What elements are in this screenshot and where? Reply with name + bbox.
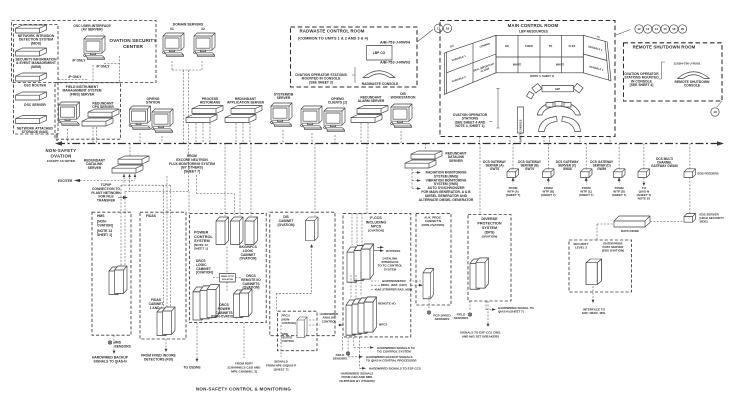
console remote shutdown xyxy=(678,72,710,79)
node datalink drop arrows xyxy=(123,174,137,177)
svg-text:AUX. PROC.CABINET-N(NON-OVATIO: AUX. PROC.CABINET-N(NON-OVATION) xyxy=(422,216,445,227)
box aux proc cabinet xyxy=(416,213,451,305)
server data diode xyxy=(614,216,650,227)
wire leader to circle 12 xyxy=(616,30,631,36)
server CPS stack xyxy=(82,109,119,126)
monitor FIMS xyxy=(58,102,79,125)
wire RSR bracket xyxy=(659,62,666,79)
sensor DPS field xyxy=(468,313,471,316)
wire aux sensors xyxy=(428,296,430,309)
sensor RCP speed xyxy=(427,311,430,314)
node exciter arrow xyxy=(74,179,80,182)
svg-text:CPM/MIN: CPM/MIN xyxy=(479,42,490,48)
node circle 18 xyxy=(443,24,451,32)
console radwaste xyxy=(363,71,395,78)
svg-text:SIGNALSFROM NPE-S/QIAS-P[SHEET: SIGNALSFROM NPE-S/QIAS-P[SHEET 7] xyxy=(266,360,296,372)
svg-text:TCP/IPCONNECTION TOPLANT NETWO: TCP/IPCONNECTION TOPLANT NETWORKFOR FILE… xyxy=(91,183,121,203)
svg-text:P-CCSINCLUDINGNPCS[OVATION]: P-CCSINCLUDINGNPCS[OVATION] xyxy=(366,216,387,233)
wire PCS left feeder xyxy=(188,192,190,214)
svg-text:FIBER OPTICISOLATION: FIBER OPTICISOLATION xyxy=(221,276,235,281)
panel fiber optic isolation xyxy=(219,274,235,283)
svg-text:FIXED: FIXED xyxy=(525,44,533,48)
console LBP xyxy=(527,83,584,99)
wire gateway A xyxy=(512,144,514,185)
gateway cube D xyxy=(614,169,626,178)
svg-text:HARDWIRED SIGNALS TOT/G CONTRO: HARDWIRED SIGNALS TOT/G CONTROL SYSTEM xyxy=(377,346,415,354)
console MCR bottom left xyxy=(539,117,558,132)
svg-text:NETWORK ATTACHEDSTORAGE (NAS): NETWORK ATTACHEDSTORAGE (NAS) xyxy=(17,127,54,135)
server datalink left stack xyxy=(112,156,149,173)
monitor op-eng station 1 xyxy=(129,106,150,129)
svg-text:DISCABINET(OVATION): DISCABINET(OVATION) xyxy=(278,215,295,227)
gateway cube EDS server xyxy=(684,214,696,223)
svg-text:PROCESSHISTORIANS: PROCESSHISTORIANS xyxy=(200,97,221,105)
panel safety console xyxy=(518,107,524,142)
wire FIMS drops xyxy=(68,127,97,143)
svg-text:POWERCONTROLSYSTEM[NOTE 12SHEE: POWERCONTROLSYSTEM[NOTE 12SHEET 1] xyxy=(194,231,213,251)
wire DIS feeder from trunk xyxy=(314,144,316,217)
svg-text:DSC SERVER: DSC SERVER xyxy=(24,103,46,107)
wire leader to circle 19 xyxy=(717,101,723,108)
svg-text:#1: #1 xyxy=(170,27,174,31)
svg-text:DATA DIODE: DATA DIODE xyxy=(621,229,639,233)
wire PCS to CEDM xyxy=(196,323,198,360)
svg-text:RADIATION MONITORINGSYSTEM (RM: RADIATION MONITORINGSYSTEM (RMS)VIBRATIO… xyxy=(419,171,474,202)
server process historians xyxy=(186,106,223,123)
box FIMS xyxy=(55,83,121,140)
wire RCPSSSS arrows xyxy=(374,247,382,250)
svg-text:EXCEPT AS NOTED: EXCEPT AS NOTED xyxy=(47,159,76,163)
sensor field sensors PCCS xyxy=(346,352,349,355)
server DSC server xyxy=(16,92,47,100)
svg-text:VARIABLE 2: VARIABLE 2 xyxy=(451,76,466,84)
svg-text:MAIN CONTROL ROOM: MAIN CONTROL ROOM xyxy=(508,23,559,28)
wire system db drop xyxy=(282,130,284,143)
wire IP only horizontal xyxy=(58,79,88,81)
svg-text:DCS GATEWAYSERVER (A)GW78: DCS GATEWAYSERVER (A)GW78 xyxy=(483,160,507,171)
svg-text:DIVERSEPROTECTIONSYSTEM(DPS)(O: DIVERSEPROTECTIONSYSTEM(DPS)(OVATION) xyxy=(477,217,502,239)
node circle 13 xyxy=(644,25,652,33)
svg-text:OVATION OPERATORSTATIONS MOUNT: OVATION OPERATORSTATIONS MOUNTEDIN CONSO… xyxy=(624,72,659,87)
monitor domain server 2 xyxy=(194,33,215,56)
box DIS cabinet xyxy=(270,212,335,336)
sensor HMS xyxy=(108,341,111,344)
wire DIS workstation drop xyxy=(400,131,402,143)
svg-text:RADWASTE CONTROL ROOM: RADWASTE CONTROL ROOM xyxy=(300,29,365,34)
svg-text:RCP SPEEDSENSORS: RCP SPEEDSENSORS xyxy=(433,314,451,322)
cabinet PCS logic 2 xyxy=(231,217,244,245)
svg-text:FIELD INSTRUMENTMANAGEMENT SYS: FIELD INSTRUMENTMANAGEMENT SYSTEM(FIMS) … xyxy=(62,85,101,96)
wire exciter line xyxy=(80,180,135,182)
svg-text:INTERFACE TOEOF, NERC, MSL: INTERFACE TOEOF, NERC, MSL xyxy=(582,308,606,316)
svg-text:FROM RSPT[CHANNELS C&D ANDMPE: FROM RSPT[CHANNELS C&D ANDMPE CHANNEL 3] xyxy=(228,362,262,374)
svg-text:18: 18 xyxy=(672,27,676,31)
svg-text:VARIABLE 4: VARIABLE 4 xyxy=(589,65,605,72)
svg-text:REDUNDANTAPPLICATION SERVER: REDUNDANTAPPLICATION SERVER xyxy=(227,97,265,105)
node circle 12 xyxy=(635,25,643,33)
wire leader to circle 17 xyxy=(417,30,433,43)
wire RSPT drop xyxy=(243,323,245,358)
wire PPCU to PCCS xyxy=(309,320,343,325)
box P-CCS xyxy=(343,213,411,337)
node circle 20 xyxy=(678,25,686,33)
wire MCR bracket xyxy=(489,89,500,128)
wire fiber optic links xyxy=(213,247,241,292)
svg-text:FROMWTP (B)(SHEET 7): FROMWTP (B)(SHEET 7) xyxy=(541,186,556,197)
svg-text:TOQIAS-N(SHEET 7)NOTE 25: TOQIAS-N(SHEET 7)NOTE 25 xyxy=(637,186,652,201)
svg-text:1/2/3/4-756-J-RU01: 1/2/3/4-756-J-RU01 xyxy=(674,62,701,66)
svg-text:REMOTE SHUTDOWN ROOM: REMOTE SHUTDOWN ROOM xyxy=(633,45,696,50)
svg-text:REDUNDANTALARM SERVER: REDUNDANTALARM SERVER xyxy=(358,96,385,104)
server datalink right stack xyxy=(405,151,442,168)
svg-text:OVATION OPERATOR STATIONSMOUNT: OVATION OPERATOR STATIONSMOUNTED IN CONS… xyxy=(295,73,347,84)
svg-text:A/B-753-J-RW04: A/B-753-J-RW04 xyxy=(380,40,411,45)
svg-text:DRCSREMOTE I/OCABINETS(OVATION: DRCSREMOTE I/OCABINETS(OVATION) xyxy=(241,274,261,290)
svg-text:14: 14 xyxy=(655,27,659,31)
svg-text:TO CEDMs: TO CEDMs xyxy=(183,366,200,370)
wire MCR drops to trunk xyxy=(480,137,611,144)
svg-text:17: 17 xyxy=(437,27,441,31)
svg-text:LBP: LBP xyxy=(555,87,560,91)
svg-text:NPCS: NPCS xyxy=(379,323,387,327)
wire radwaste bracket xyxy=(352,67,355,83)
wire DPS field sensors xyxy=(469,301,471,311)
svg-text:RCPSSSS: RCPSSSS xyxy=(386,249,400,253)
svg-text:WHITE: WHITE xyxy=(513,63,522,67)
svg-text:A/B-753-J-RW03: A/B-753-J-RW03 xyxy=(380,60,411,65)
svg-text:FIELDSENSORS: FIELDSENSORS xyxy=(333,353,348,361)
svg-text:DSC ROUTER: DSC ROUTER xyxy=(24,84,47,88)
svg-text:DOMAIN SERVERS: DOMAIN SERVERS xyxy=(173,23,204,27)
wire enterprise interface drop xyxy=(592,286,594,301)
svg-text:OP/ENGSTATION: OP/ENGSTATION xyxy=(146,97,161,105)
panel center display grid xyxy=(496,35,583,73)
svg-text:HARDWIREDANALOGCONTROL: HARDWIREDANALOGCONTROL xyxy=(320,312,339,323)
cabinet FIDAS xyxy=(157,307,175,336)
svg-text:HARDWIRED SIGNALS TO ESF-CCS: HARDWIRED SIGNALS TO ESF-CCS xyxy=(369,367,421,371)
wire historians drops xyxy=(196,123,210,143)
cabinet DRCS power group xyxy=(193,285,220,320)
wire FIDAS sensor drop xyxy=(165,339,167,350)
cabinet enterprise data server xyxy=(586,259,602,285)
svg-text:19: 19 xyxy=(713,110,717,114)
svg-text:WIREHEATERCONTROL: WIREHEATERCONTROL xyxy=(282,332,295,343)
svg-text:13: 13 xyxy=(646,27,650,31)
monitor system db server xyxy=(271,103,292,126)
cabinet DIS xyxy=(306,217,319,241)
gateway cube C xyxy=(581,169,593,178)
svg-text:EDS FEEDERS: EDS FEEDERS xyxy=(698,172,719,176)
svg-text:FROMWTP (A)[SHEET 7]: FROMWTP (A)[SHEET 7] xyxy=(506,186,521,197)
svg-text:OVATION SECURITYCENTER: OVATION SECURITYCENTER xyxy=(109,38,157,49)
svg-text:VARIABLE 1: VARIABLE 1 xyxy=(451,55,466,63)
cabinet PCCS upper group xyxy=(347,244,374,282)
wire gateway B xyxy=(547,144,549,185)
cabinet PPCU xyxy=(297,317,307,338)
svg-text:12: 12 xyxy=(637,27,641,31)
box main control room xyxy=(440,21,615,137)
box remote shutdown room xyxy=(624,43,723,101)
cabinet HMS xyxy=(109,266,127,295)
wire DIS internal route xyxy=(277,246,312,311)
server NIDS xyxy=(16,25,47,33)
node circle 18b xyxy=(670,25,678,33)
svg-text:REMOTE SHUTDOWNCONSOLE: REMOTE SHUTDOWNCONSOLE xyxy=(675,80,711,88)
server alarm stack xyxy=(351,106,388,123)
svg-text:BKG/NPCSLOGICCABINET(OVATION): BKG/NPCSLOGICCABINET(OVATION) xyxy=(239,245,257,261)
svg-text:LBP RESOURCES: LBP RESOURCES xyxy=(519,30,549,34)
wire PCS cabinet feeders xyxy=(225,144,251,217)
svg-text:(NOTE 4, SHEET 1): (NOTE 4, SHEET 1) xyxy=(530,74,554,78)
wire data diode to EDS server xyxy=(650,221,684,223)
wire EDS feeders riser and drop xyxy=(689,144,691,214)
svg-text:RADWASTE CONSOLE: RADWASTE CONSOLE xyxy=(362,82,399,86)
wire AV server drop xyxy=(92,65,94,83)
server application stack xyxy=(225,106,262,123)
panel left wing xyxy=(444,35,496,94)
wire gateway multichannel xyxy=(643,144,645,185)
cabinet DPS xyxy=(470,258,489,289)
svg-text:20: 20 xyxy=(681,27,685,31)
svg-text:IP ONLY: IP ONLY xyxy=(96,65,110,69)
wire domain servers bus xyxy=(172,61,202,192)
svg-text:FROMWTP (D)(SHEET 7): FROMWTP (D)(SHEET 7) xyxy=(612,186,627,197)
svg-text:HARDWIRED BACKUP SIGNALSTO QIA: HARDWIRED BACKUP SIGNALSTO QIAS-N CENTRA… xyxy=(366,355,417,363)
node circle 17 xyxy=(434,24,442,32)
svg-text:IP ONLY: IP ONLY xyxy=(68,75,82,79)
wire PCCS bottom drops xyxy=(342,337,372,368)
svg-text:HARDWIRED SIGNALSFROM C&D AND: HARDWIRED SIGNALSFROM C&D AND DMS(SUPPLI… xyxy=(339,372,374,383)
svg-text:FIELDSENSORS: FIELDSENSORS xyxy=(454,313,469,321)
svg-text:SEAL IMPORTANTALARM: SEAL IMPORTANTALARM xyxy=(473,62,496,75)
wire DPS to QIAS-N xyxy=(486,301,494,310)
svg-text:REDUNDANTCPS SERVER: REDUNDANTCPS SERVER xyxy=(92,102,114,110)
wire PCCS feeder xyxy=(366,144,368,214)
svg-text:HMSSENSORS: HMSSENSORS xyxy=(114,341,132,349)
svg-text:REMOTE I/O: REMOTE I/O xyxy=(378,302,396,306)
svg-text:REDUNDANTDATALINKSERVER: REDUNDANTDATALINKSERVER xyxy=(84,159,105,170)
svg-text:EXCITER: EXCITER xyxy=(58,179,73,183)
cabinet PCCS lower group xyxy=(346,297,377,335)
svg-text:FROMWTP (C)(SHEET 7): FROMWTP (C)(SHEET 7) xyxy=(579,186,594,197)
svg-text:SYSTEM/DBSERVER: SYSTEM/DBSERVER xyxy=(274,93,294,101)
wire distribution h185 xyxy=(121,184,171,186)
wire DPS feeder xyxy=(479,144,481,215)
svg-text:PPCU[NON-OVATION]: PPCU[NON-OVATION] xyxy=(282,314,296,325)
node trunk left arrow xyxy=(55,141,62,145)
svg-text:HARDWIRED SIGNAL TOQIAS-N (SHE: HARDWIRED SIGNAL TOQIAS-N (SHEET 7) xyxy=(498,306,534,314)
box Ovation Security Center xyxy=(12,21,157,83)
svg-text:#2: #2 xyxy=(201,27,205,31)
svg-text:WHITE: WHITE xyxy=(556,63,565,67)
svg-text:VARIABLE 3: VARIABLE 3 xyxy=(588,45,604,52)
console MCR middle xyxy=(537,102,580,116)
wire DPS signals drop xyxy=(487,301,489,325)
wire datalink right riser xyxy=(425,144,427,152)
server NAS xyxy=(16,116,47,124)
svg-text:NON-SAFETY CONTROL & MONITORIN: NON-SAFETY CONTROL & MONITORING xyxy=(196,387,292,392)
node circle 14 xyxy=(652,25,660,33)
svg-text:IP ONLY: IP ONLY xyxy=(72,59,86,63)
svg-text:NETWORK INTRUSIONDETECTION SYS: NETWORK INTRUSIONDETECTION SYSTEM(NIDS) xyxy=(18,34,55,45)
panel LBP CO xyxy=(367,46,393,61)
svg-text:FIDAS: FIDAS xyxy=(146,214,157,218)
box FIDAS xyxy=(140,212,186,339)
svg-text:DCS MULTICHANNELGATEWAY GW180: DCS MULTICHANNELGATEWAY GW180 xyxy=(651,157,678,168)
svg-text:(COMMON TO UNITS 1 & 2 AND 3 &: (COMMON TO UNITS 1 & 2 AND 3 & 4) xyxy=(298,36,369,41)
svg-text:OSC USER-INTERFACE(AV SERVER): OSC USER-INTERFACE(AV SERVER) xyxy=(73,24,111,32)
svg-text:18: 18 xyxy=(446,27,450,31)
cabinet aux proc xyxy=(423,269,434,299)
svg-text:SECURITYLEVEL 2: SECURITYLEVEL 2 xyxy=(573,242,588,250)
cabinet PCS logic 3 xyxy=(245,217,258,245)
node circle 15 xyxy=(661,25,669,33)
svg-text:DISWORKSTATION: DISWORKSTATION xyxy=(391,92,416,100)
monitor DIS workstation xyxy=(391,104,412,127)
svg-text:LBP CO: LBP CO xyxy=(373,51,386,55)
cabinet DRCS remote IO group xyxy=(234,289,253,318)
box security level 2 xyxy=(569,240,632,292)
server DSC router xyxy=(16,73,47,81)
box HMS xyxy=(92,212,131,335)
wire FIDAS feeders xyxy=(164,176,171,307)
panel right wing xyxy=(583,35,611,81)
box PPCU xyxy=(278,311,318,351)
wire HMS sensors drop xyxy=(113,335,115,352)
monitor AV server xyxy=(84,36,105,59)
wire gateway C xyxy=(585,144,587,185)
wire tcp-ip arrow xyxy=(118,197,126,199)
gateway cube multichannel xyxy=(638,169,650,178)
svg-text:HMS[NON-OVATION][NOTE 13SHEET: HMS[NON-OVATION][NOTE 13SHEET 1] xyxy=(97,214,113,237)
node circle 19 xyxy=(711,108,719,116)
svg-text:FROMEXCORE NEUTRONFLUX MONITOR: FROMEXCORE NEUTRONFLUX MONITORING SYSTEM… xyxy=(169,154,215,174)
wire op-eng drops xyxy=(140,133,162,143)
gateway cube B xyxy=(543,169,555,178)
svg-text:DCS GATEWAYSERVER (B)GW79: DCS GATEWAYSERVER (B)GW79 xyxy=(518,160,542,171)
box security servers column xyxy=(14,25,59,135)
svg-text:DRCSLOGICCABINET[OVATION]: DRCSLOGICCABINET[OVATION] xyxy=(196,259,213,275)
svg-text:15: 15 xyxy=(663,27,667,31)
svg-text:REDUNDANTDATALINKSERVER: REDUNDANTDATALINKSERVER xyxy=(445,152,466,163)
wire boronometer dashes xyxy=(371,281,421,289)
svg-text:DCS GATEWAYSERVER (D)GW89: DCS GATEWAYSERVER (D)GW89 xyxy=(590,160,614,171)
gateway cube EDS feeders xyxy=(684,169,696,178)
wire RMS bracket xyxy=(412,169,419,189)
svg-text:SAFETY CONSOLE: SAFETY CONSOLE xyxy=(520,119,523,142)
svg-text:HARDWIRED BACKUPSIGNALS TO QIA: HARDWIRED BACKUPSIGNALS TO QIAS-N xyxy=(92,356,129,364)
svg-text:RG: RG xyxy=(505,44,509,48)
wire non-safety boundary xyxy=(56,134,58,144)
svg-text:SECURITY INFORMATION& EVENT MA: SECURITY INFORMATION& EVENT MANAGEMENT(S… xyxy=(15,58,57,69)
wire HMS feeders xyxy=(121,185,125,266)
svg-text:ENTERPRISEDATA SERVER[EDS OVAT: ENTERPRISEDATA SERVER[EDS OVATION] xyxy=(602,242,624,253)
node trunk right arrow xyxy=(717,141,724,145)
svg-text:OVATION OPERATORSTATIONS(SEE S: OVATION OPERATORSTATIONS(SEE SHEET 4 AND… xyxy=(453,113,488,128)
cabinet PCS logic 1 xyxy=(216,217,229,245)
box diverse protection system xyxy=(468,215,511,302)
monitor domain server 1 xyxy=(163,33,184,56)
wire excore drops xyxy=(197,175,235,215)
wire app server drops xyxy=(236,123,250,143)
wire gateway D xyxy=(618,144,620,185)
svg-text:FROM FIXED INCOREDETECTORS (FD: FROM FIXED INCOREDETECTORS (FDI) xyxy=(141,354,176,362)
console MCR bottom right xyxy=(562,117,581,132)
svg-text:DATALINKINTERFACETO TG CONTROL: DATALINKINTERFACETO TG CONTROLSYSTEM xyxy=(378,257,403,272)
monitor op-eng client 1 xyxy=(301,106,322,129)
svg-text:TO: TO xyxy=(549,44,553,48)
svg-text:110: 110 xyxy=(449,44,454,48)
wire NPE-S feed xyxy=(280,325,282,357)
wire alarm drops xyxy=(361,123,368,143)
wire datalink left drops xyxy=(124,174,135,192)
svg-text:OP/ENGCLIENTS (2): OP/ENGCLIENTS (2) xyxy=(328,97,347,105)
monitor op-eng station 2 xyxy=(152,109,173,132)
wire IP only riser xyxy=(104,56,120,83)
svg-text:DCS GATEWAYSERVER (C)GW88: DCS GATEWAYSERVER (C)GW88 xyxy=(556,160,580,171)
wire trunk network bus xyxy=(57,143,722,145)
svg-text:FLEX: FLEX xyxy=(569,44,576,48)
wire distribution h191 xyxy=(125,191,189,193)
svg-text:SIGNALS TO ESF-CCS CWS,AND M/G: SIGNALS TO ESF-CCS CWS,AND M/G SET BREAK… xyxy=(460,331,501,339)
wire PCCS cabinet feeders xyxy=(352,213,362,245)
svg-text:NON-SAFETYOVATION: NON-SAFETYOVATION xyxy=(46,148,77,159)
svg-text:BORONOMETERPROC. INST. (AOV)GA: BORONOMETERPROC. INST. (AOV)GAS STRIPPER… xyxy=(375,279,413,291)
box radwaste control room xyxy=(291,27,418,87)
gateway cube A xyxy=(507,169,519,178)
server SIEM xyxy=(16,48,47,56)
wire clients drops xyxy=(312,133,335,143)
svg-text:EDS SERVER[HIGH SECURITYSIDE]: EDS SERVER[HIGH SECURITYSIDE] xyxy=(700,213,725,224)
wire between cabinet groups xyxy=(351,272,361,299)
wire data diode to enterprise box xyxy=(597,224,614,240)
box power control system xyxy=(189,213,266,322)
wire datalink left riser xyxy=(129,144,131,157)
monitor op-eng client 2 xyxy=(324,108,345,131)
